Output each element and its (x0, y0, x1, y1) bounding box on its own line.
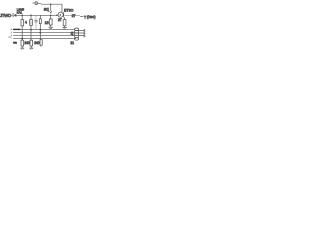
wire R4 to ground (50, 25, 52, 27)
wire to R7 (30, 39, 32, 41)
tube V1 envelope (58, 12, 63, 17)
transformer right bar (83, 29, 85, 37)
node line4 stub (8, 36, 10, 38)
label R2 inner (31, 21, 32, 25)
wire R7 to ground (30, 46, 32, 48)
wire drop A (21, 15, 23, 19)
ground G4 (29, 48, 33, 49)
wire bus line 4 (13, 38, 76, 40)
node plate hook (50, 11, 52, 13)
tube V1 grid bar (63, 12, 65, 17)
wire rail corner down (61, 4, 63, 12)
label output dash (80, 15, 83, 17)
wire input lead (10, 14, 13, 16)
svg-text:15: 15 (45, 21, 49, 25)
node junction on rail (50, 3, 52, 5)
svg-text:240: 240 (24, 41, 30, 45)
transformer core lines (79, 31, 84, 36)
svg-text:aq: aq (44, 7, 49, 12)
svg-text:wn: wn (13, 41, 17, 45)
diode D1 cathode bar (12, 13, 14, 17)
ground G1 (48, 27, 53, 28)
resistor R5 (63, 20, 66, 26)
ground G3 (20, 48, 24, 49)
wire drop C (50, 15, 52, 19)
capacitor C2 (35, 20, 38, 22)
wire faint right terminal (85, 30, 87, 36)
diode D1 triangle (14, 14, 17, 18)
resistor R8 (40, 40, 42, 46)
wire bus line 1 heavy start (13, 28, 21, 30)
wire drop B (30, 15, 32, 19)
wire signal main (15, 14, 57, 16)
wire R1 to bus (21, 26, 23, 40)
node junction B (30, 15, 32, 16)
svg-text:2T: 2T (58, 18, 62, 22)
svg-text:KA1: KA1 (17, 10, 23, 14)
svg-text:ET3O: ET3O (64, 9, 74, 13)
node junction R3-bus1 (39, 29, 41, 31)
node junction A (21, 15, 23, 16)
wire R2 to bus (30, 25, 32, 40)
transformer L1 winding (75, 28, 79, 40)
node junction tube-in (56, 15, 58, 16)
svg-text:(imo): (imo) (87, 15, 96, 19)
resistor R4 (49, 19, 52, 25)
node junction R3-bus2 (39, 32, 41, 34)
node tube dot (60, 14, 62, 16)
wire tube out right (64, 15, 80, 17)
resistor R6 (21, 40, 24, 46)
wire to R6 (21, 39, 23, 41)
wire C2 bottom (35, 22, 37, 30)
resistor R3 (39, 19, 41, 24)
svg-text:2]: 2] (71, 31, 74, 35)
svg-text:27: 27 (72, 14, 76, 18)
node junction C (50, 15, 52, 16)
wire R8 tail (40, 45, 42, 47)
wire R6 to ground (21, 46, 23, 48)
svg-text:4: 4 (25, 21, 27, 25)
node bus junction 1 (30, 29, 32, 31)
svg-text:240: 240 (34, 41, 40, 45)
wire bus line 2 (13, 32, 74, 34)
node bus junction 2 (21, 38, 23, 40)
resistor R7 (30, 40, 33, 46)
svg-text:21: 21 (70, 41, 74, 45)
wire B+ rail top (38, 2, 62, 5)
resistor R1 (21, 20, 24, 26)
wire tube to R5 (64, 17, 66, 19)
wire bus line 1 (13, 29, 74, 31)
resistor R2 (30, 20, 33, 26)
wire dashed boundary (10, 28, 12, 38)
wire bus line 3 (13, 35, 74, 37)
wire R5 to ground (64, 26, 66, 28)
wire R3 down (39, 15, 41, 39)
node B+ terminal (33, 2, 38, 5)
ground G2 (62, 28, 67, 29)
wire plate drop (50, 4, 52, 11)
svg-text:JTWC: JTWC (0, 13, 11, 18)
wire C2 top (35, 16, 37, 20)
